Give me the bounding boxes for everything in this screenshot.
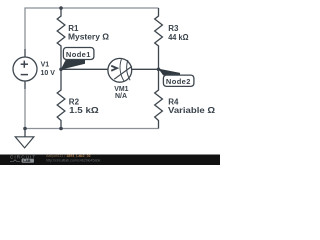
svg-text:LAB: LAB (23, 159, 31, 163)
svg-text:http://circuitlab.com/c4b29le4: http://circuitlab.com/c4b29le45abk (46, 158, 101, 162)
svg-text:R3: R3 (168, 24, 179, 33)
svg-text:Variable Ω: Variable Ω (168, 106, 216, 115)
svg-text:Mystery Ω: Mystery Ω (68, 32, 110, 41)
svg-text:1.5 kΩ: 1.5 kΩ (69, 106, 99, 115)
svg-text:44 kΩ: 44 kΩ (168, 33, 189, 42)
svg-text:VM1: VM1 (114, 86, 128, 93)
svg-text:V1: V1 (41, 61, 50, 68)
svg-text:N/A: N/A (115, 93, 127, 100)
svg-text:Node1: Node1 (66, 50, 91, 59)
svg-text:10 V: 10 V (41, 70, 56, 77)
svg-text:Node2: Node2 (166, 77, 191, 86)
